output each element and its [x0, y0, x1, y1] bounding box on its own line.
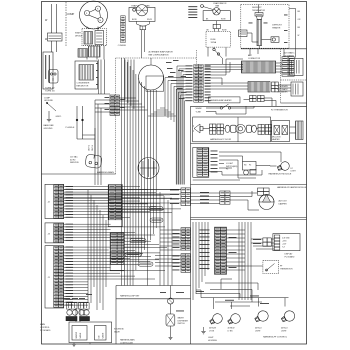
- wire B1 left: [95, 99, 110, 101]
- svg-text:HARNESS-FF CONTROL: HARNESS-FF CONTROL: [263, 336, 288, 339]
- mullion heater: [272, 121, 290, 142]
- fan labels colA: [166, 60, 187, 99]
- svg-text:DEFROST: DEFROST: [252, 7, 262, 9]
- wire defrost down to colB: [249, 49, 251, 56]
- alternate ice maker box: [291, 82, 303, 96]
- svg-text:LIGHT: LIGHT: [208, 337, 214, 339]
- label pills: [149, 207, 163, 211]
- compressor motor: [80, 1, 108, 29]
- labels left RC2: [173, 230, 180, 248]
- defrost left relay: [239, 30, 248, 37]
- svg-text:SOLENOID: SOLENOID: [114, 329, 124, 331]
- solenoid connector labels: [64, 294, 92, 299]
- ground base pan: [48, 111, 50, 119]
- wire E blocks right: [122, 186, 140, 188]
- grommet circle top: [139, 65, 164, 90]
- svg-text:WATER: WATER: [75, 331, 78, 338]
- connector CONN-E box: [43, 52, 53, 89]
- svg-text:GROUND: GROUND: [44, 100, 53, 102]
- ff thermistor box: [263, 261, 279, 274]
- water filter node: [170, 286, 172, 299]
- adt connector: [241, 61, 275, 73]
- ff grid: [214, 227, 226, 274]
- start device box: [82, 29, 107, 46]
- svg-text:HARNESS-DISP NET: HARNESS-DISP NET: [120, 294, 140, 297]
- svg-text:P-GN/S-E: P-GN/S-E: [66, 127, 76, 129]
- hot door connector pair 1: [210, 124, 216, 134]
- connector block E1: [108, 185, 122, 227]
- svg-text:ALTERNATE: ALTERNATE: [278, 85, 289, 88]
- svg-text:DAMPER: DAMPER: [279, 202, 288, 205]
- ff section left bundle: [192, 222, 194, 300]
- right-center block RC3: [181, 254, 190, 273]
- evap1 connector strip: [121, 16, 126, 43]
- connector block B1: [110, 95, 120, 115]
- svg-text:VALVE: VALVE: [79, 332, 82, 339]
- wire center to RC blocks: [64, 189, 181, 191]
- svg-text:FAN MOTOR: FAN MOTOR: [77, 85, 89, 88]
- divider main vertical: [190, 106, 192, 344]
- svg-text:FAN CONFIGURATION: FAN CONFIGURATION: [149, 54, 170, 57]
- ice maker box: [290, 58, 304, 75]
- grommet circle bottom: [138, 158, 159, 179]
- svg-text:MULLION: MULLION: [272, 137, 281, 139]
- evap2 connector: [213, 24, 220, 28]
- svg-text:COMP: COMP: [67, 12, 75, 16]
- relay: [84, 32, 93, 45]
- wire into grommet: [150, 58, 152, 65]
- svg-text:SWITCH(ES): SWITCH(ES): [226, 166, 238, 168]
- svg-text:L LIGHT: L LIGHT: [226, 163, 234, 165]
- light bulb 1: [208, 312, 224, 327]
- svg-text:GN/YL: GN/YL: [56, 116, 63, 118]
- fz module connector block: [193, 148, 209, 178]
- capacitor: [48, 33, 63, 41]
- fz switch component: [243, 162, 257, 171]
- svg-text:BK/W: BK/W: [132, 19, 137, 21]
- harness evap heater label box: [209, 97, 241, 103]
- evap1 connector: [140, 26, 146, 30]
- ground light housing: [203, 327, 205, 331]
- svg-text:ALTERNATE EVAPORATOR: ALTERNATE EVAPORATOR: [149, 51, 174, 54]
- defrost terminator: [255, 13, 263, 16]
- power plug: [85, 154, 102, 169]
- speaker: [194, 124, 200, 133]
- damper top connector: [258, 188, 270, 195]
- wire adt to ice maker: [276, 62, 282, 64]
- svg-text:HARNESS-FZ MODULE: HARNESS-FZ MODULE: [269, 173, 292, 176]
- svg-text:WH/BK: WH/BK: [196, 108, 203, 110]
- defrost section box: [241, 5, 289, 49]
- hot door capsules: [225, 125, 230, 132]
- wire hot door: [203, 128, 210, 130]
- divider fz thermistor strip: [191, 105, 307, 107]
- svg-text:40TB-U: 40TB-U: [255, 328, 262, 330]
- wire fan stack horizontals: [64, 186, 109, 188]
- divider ice maker column: [280, 49, 282, 103]
- svg-text:EVAPORATOR: EVAPORATOR: [214, 2, 227, 5]
- condenser fan motor: [75, 61, 98, 89]
- wire switch down: [170, 326, 172, 337]
- svg-text:LIGHT: LIGHT: [281, 330, 287, 332]
- svg-text:HEATER: HEATER: [272, 26, 281, 29]
- svg-text:DISPLAY: DISPLAY: [285, 253, 294, 256]
- wire ff light runs: [201, 297, 289, 299]
- damper labels left: [200, 192, 209, 203]
- evap heater connectors: [250, 96, 257, 102]
- wire bundle center vertical: [120, 58, 122, 286]
- power cord: [94, 128, 96, 155]
- connector stack J1: [45, 246, 64, 308]
- svg-text:GN/YL: GN/YL: [92, 144, 94, 151]
- svg-text:PC BOARD: PC BOARD: [285, 255, 296, 258]
- svg-text:YL/BK: YL/BK: [196, 112, 202, 114]
- damper connector grid: [220, 191, 230, 204]
- ground solenoid: [89, 343, 91, 345]
- svg-text:THERMISTOR: THERMISTOR: [280, 268, 293, 270]
- wire defrost right: [289, 8, 296, 10]
- svg-text:RD/W: RD/W: [221, 18, 226, 20]
- overload: [95, 31, 104, 45]
- svg-text:W: W: [298, 35, 300, 37]
- svg-text:CONTROLLER: CONTROLLER: [120, 342, 134, 344]
- ff labels right: [229, 237, 237, 268]
- wire bundle left: [98, 60, 100, 95]
- wire defrost inner: [258, 5, 260, 13]
- solenoid valve 1: [67, 303, 78, 309]
- svg-text:AUTOMATIC: AUTOMATIC: [284, 52, 296, 55]
- svg-text:40TB-W: 40TB-W: [209, 328, 216, 330]
- wire B1 right: [120, 97, 136, 99]
- svg-text:LIGHT: LIGHT: [291, 171, 297, 173]
- svg-text:CONDENSER: CONDENSER: [77, 83, 90, 85]
- right-center block RC2: [181, 228, 190, 250]
- wire staircase from column: [177, 65, 186, 67]
- wire bundle center-right: [159, 192, 161, 286]
- solenoid valve 2: [79, 303, 90, 309]
- svg-text:HARNESS-EVAP HEATER: HARNESS-EVAP HEATER: [210, 99, 232, 102]
- divider disp-net: [116, 285, 191, 287]
- wire evap2 to colB: [207, 47, 209, 56]
- svg-text:FAN: FAN: [216, 5, 220, 8]
- connector block E2: [110, 233, 124, 271]
- svg-text:LT BK: LT BK: [228, 330, 234, 332]
- svg-text:HOUSING: HOUSING: [208, 340, 217, 342]
- right-center block RC1: [181, 188, 190, 206]
- svg-text:HARNESS-HOT DOOR: HARNESS-HOT DOOR: [210, 138, 232, 141]
- light bulb 3: [253, 309, 270, 325]
- ice maker connector: [282, 57, 294, 77]
- wire ff thermistor: [226, 265, 263, 267]
- svg-text:HARNESS-FZ DAMPER MODULE: HARNESS-FZ DAMPER MODULE: [277, 186, 307, 189]
- svg-text:HARNESS-MAIN: HARNESS-MAIN: [97, 171, 114, 174]
- svg-text:40TB-W: 40TB-W: [228, 328, 235, 330]
- svg-text:HARNESS-MAIN: HARNESS-MAIN: [120, 339, 135, 342]
- wire run-cap leads: [51, 4, 53, 33]
- svg-text:BASE PAN: BASE PAN: [44, 124, 54, 127]
- evap2 labels: [188, 6, 197, 18]
- hot door connector pair 3: [258, 125, 264, 135]
- svg-text:MAIN: MAIN: [40, 323, 46, 326]
- hot door connector pair 2: [217, 124, 223, 134]
- wire fan verticals: [87, 190, 89, 303]
- divider damper bottom double: [191, 217, 307, 219]
- svg-text:SERVICE: SERVICE: [70, 162, 79, 164]
- wire ff grid right: [226, 229, 245, 231]
- divider left section: [42, 93, 111, 95]
- wire dashed: [65, 2, 67, 46]
- svg-text:AUTO-FZ: AUTO-FZ: [279, 200, 288, 203]
- labels left RC3: [173, 256, 180, 271]
- divider fz module bottom: [191, 184, 307, 186]
- svg-text:TO/FM 1/2: TO/FM 1/2: [45, 88, 55, 90]
- svg-text:DISPENSER: DISPENSER: [178, 320, 189, 322]
- harness hot door box: [193, 117, 271, 142]
- wire top bundle: [124, 60, 126, 101]
- right heater element: [296, 121, 304, 140]
- svg-text:SWITCH: SWITCH: [178, 323, 186, 325]
- svg-text:CONTROL: CONTROL: [40, 327, 51, 329]
- light bulb 4: [280, 309, 297, 325]
- svg-text:PC BOARD: PC BOARD: [40, 329, 51, 332]
- dispenser pc board: [273, 234, 300, 251]
- alternate ice maker grid: [272, 82, 279, 92]
- solenoid valve box: [69, 322, 112, 343]
- svg-text:115 VAC: 115 VAC: [70, 156, 78, 159]
- svg-text:+5VD: +5VD: [282, 241, 287, 243]
- svg-text:GN/YL: GN/YL: [89, 144, 91, 151]
- svg-text:RD/W: RD/W: [222, 30, 227, 32]
- svg-text:START: START: [75, 32, 82, 35]
- svg-text:60 HZ: 60 HZ: [70, 159, 76, 161]
- plug small: [49, 70, 59, 84]
- fz module labels: [211, 151, 218, 173]
- svg-text:LT BK: LT BK: [209, 330, 215, 332]
- svg-text:VALVE: VALVE: [114, 330, 121, 333]
- wire fan stack labels: [66, 186, 74, 306]
- wire fz module: [219, 151, 281, 153]
- svg-text:CONNECTOR: CONNECTOR: [248, 58, 261, 60]
- divider hot door bottom: [191, 143, 307, 145]
- svg-text:DEVICE: DEVICE: [75, 35, 83, 37]
- svg-text:CONN/BK: CONN/BK: [118, 45, 127, 47]
- alternate ice maker connector bar: [248, 82, 270, 93]
- svg-text:120VA: 120VA: [211, 41, 217, 44]
- defrost connector small: [271, 37, 279, 43]
- fuse box: [206, 32, 230, 48]
- ff bundle vertical: [238, 222, 240, 300]
- svg-text:LIGHT: LIGHT: [255, 330, 261, 332]
- svg-text:FUSE: FUSE: [211, 39, 217, 41]
- labels left of column: [186, 65, 193, 101]
- fz light bulb: [276, 160, 290, 172]
- svg-text:HEATER: HEATER: [272, 138, 280, 141]
- hot door connector pair 4: [265, 125, 271, 135]
- wire damper: [191, 192, 220, 194]
- wire ground runs: [76, 106, 78, 139]
- connector column B main: [194, 65, 203, 103]
- ff labels left: [200, 230, 210, 269]
- wire evap heater: [244, 98, 250, 100]
- water dispenser switch: [170, 304, 172, 314]
- connector stack J3: [45, 223, 64, 243]
- divider top-center horizontal: [116, 57, 197, 59]
- svg-text:GROUND: GROUND: [44, 128, 53, 130]
- connector stack J2: [45, 184, 64, 218]
- svg-text:TO/FM 3/4: TO/FM 3/4: [45, 91, 55, 93]
- svg-text:VALVE: VALVE: [102, 332, 105, 339]
- wire compressor down: [86, 57, 88, 60]
- light bulb 2: [226, 312, 242, 327]
- defrost heater: [257, 19, 262, 45]
- wire to dispenser board: [251, 238, 263, 240]
- labels right of column: [205, 65, 211, 101]
- run capacitor block: [78, 49, 88, 58]
- fuse switch: [213, 48, 215, 50]
- wire colB to adt: [205, 64, 244, 66]
- svg-text:D-S GND: D-S GND: [282, 238, 290, 240]
- svg-text:FZ THERMISTOR: FZ THERMISTOR: [271, 110, 288, 112]
- svg-text:40TB-U: 40TB-U: [281, 328, 288, 330]
- svg-text:RD/W: RD/W: [147, 19, 152, 21]
- small block bk-wh: [263, 238, 271, 246]
- svg-text:DEFROST: DEFROST: [272, 25, 282, 27]
- svg-text:WATER: WATER: [178, 317, 185, 320]
- damper motor: [259, 195, 274, 210]
